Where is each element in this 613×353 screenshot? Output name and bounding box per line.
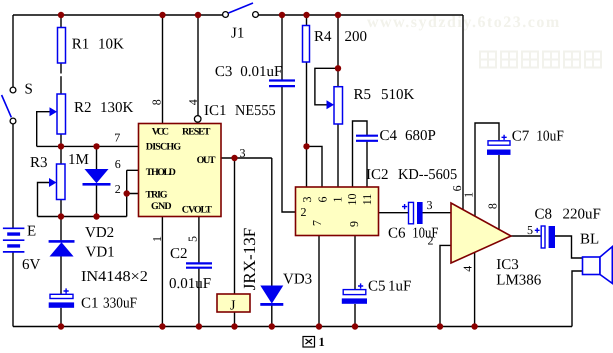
- svg-text:VD2: VD2: [85, 225, 114, 241]
- svg-text:S: S: [25, 82, 33, 98]
- svg-text:3: 3: [427, 198, 433, 212]
- svg-text:0.01uF: 0.01uF: [169, 276, 211, 292]
- svg-text:THOLD: THOLD: [146, 167, 176, 178]
- svg-text:LM386: LM386: [496, 273, 542, 289]
- svg-text:R3: R3: [30, 155, 48, 171]
- svg-text:11: 11: [360, 194, 374, 206]
- svg-text:7: 7: [114, 131, 120, 145]
- svg-text:JRX-13F: JRX-13F: [240, 228, 259, 290]
- svg-text:C4: C4: [380, 128, 398, 144]
- svg-text:8: 8: [150, 99, 164, 105]
- svg-text:1M: 1M: [68, 152, 89, 168]
- svg-text:E: E: [27, 224, 36, 240]
- svg-text:OUT: OUT: [197, 155, 216, 166]
- svg-text:C2: C2: [170, 246, 188, 262]
- svg-text:BL: BL: [580, 232, 599, 248]
- svg-text:C6: C6: [388, 226, 406, 242]
- svg-text:9: 9: [347, 221, 361, 227]
- svg-text:6: 6: [450, 185, 464, 191]
- svg-text:130K: 130K: [100, 100, 134, 116]
- svg-text:CVOLT: CVOLT: [182, 205, 212, 216]
- svg-text:1: 1: [331, 197, 345, 203]
- svg-text:www.sydzdiy.6to23.com: www.sydzdiy.6to23.com: [367, 14, 561, 31]
- svg-text:1: 1: [462, 192, 476, 198]
- svg-text:TRIG: TRIG: [146, 190, 168, 201]
- svg-text:2: 2: [115, 182, 121, 196]
- svg-text:6: 6: [115, 157, 121, 171]
- svg-text:10uF: 10uF: [536, 129, 564, 145]
- svg-text:DISCHG: DISCHG: [146, 141, 182, 152]
- svg-text:2: 2: [428, 234, 434, 248]
- svg-text:4: 4: [186, 99, 200, 105]
- svg-text:R5: R5: [354, 87, 372, 103]
- svg-text:IC2: IC2: [366, 167, 389, 183]
- svg-text:C7: C7: [512, 129, 530, 145]
- svg-text:680P: 680P: [405, 128, 436, 144]
- svg-text:10: 10: [345, 194, 359, 206]
- svg-text:1uF: 1uF: [388, 279, 411, 295]
- svg-text:10uF: 10uF: [412, 226, 438, 242]
- svg-text:330uF: 330uF: [103, 296, 137, 312]
- svg-text:5: 5: [186, 236, 200, 242]
- svg-text:6: 6: [315, 197, 329, 203]
- svg-text:RESET: RESET: [182, 127, 211, 138]
- svg-text:10K: 10K: [98, 37, 124, 53]
- svg-text:R1: R1: [72, 37, 90, 53]
- svg-text:4: 4: [461, 266, 475, 272]
- svg-text:J: J: [230, 299, 236, 314]
- svg-text:C5: C5: [368, 279, 386, 295]
- svg-text:510K: 510K: [381, 87, 415, 103]
- svg-text:IC3: IC3: [496, 257, 519, 273]
- svg-text:3: 3: [240, 146, 246, 160]
- svg-text:2: 2: [301, 205, 307, 219]
- svg-text:IC1: IC1: [204, 103, 227, 119]
- svg-text:KD--5605: KD--5605: [398, 167, 457, 183]
- svg-text:IN4148×2: IN4148×2: [81, 269, 148, 285]
- svg-text:0.01uF: 0.01uF: [240, 64, 282, 80]
- svg-text:VD1: VD1: [86, 245, 115, 261]
- svg-text:GND: GND: [151, 201, 172, 212]
- svg-text:6V: 6V: [22, 257, 41, 273]
- svg-text:VCC: VCC: [152, 127, 169, 138]
- svg-text:NE555: NE555: [235, 103, 276, 119]
- svg-text:R4: R4: [314, 29, 332, 45]
- svg-text:C3: C3: [215, 64, 233, 80]
- svg-text:J1: J1: [231, 26, 244, 42]
- svg-text:200: 200: [345, 29, 368, 45]
- svg-text:7: 7: [310, 220, 324, 226]
- svg-text:R2: R2: [74, 100, 92, 116]
- svg-text:C8: C8: [535, 207, 553, 223]
- svg-text:VD3: VD3: [283, 272, 312, 288]
- svg-text:3: 3: [300, 197, 314, 203]
- svg-text:220uF: 220uF: [563, 207, 601, 223]
- svg-text:1: 1: [150, 236, 164, 242]
- svg-text:8: 8: [485, 203, 499, 209]
- svg-text:C1: C1: [81, 296, 99, 312]
- svg-text:1: 1: [319, 335, 325, 348]
- svg-text:5: 5: [527, 223, 533, 237]
